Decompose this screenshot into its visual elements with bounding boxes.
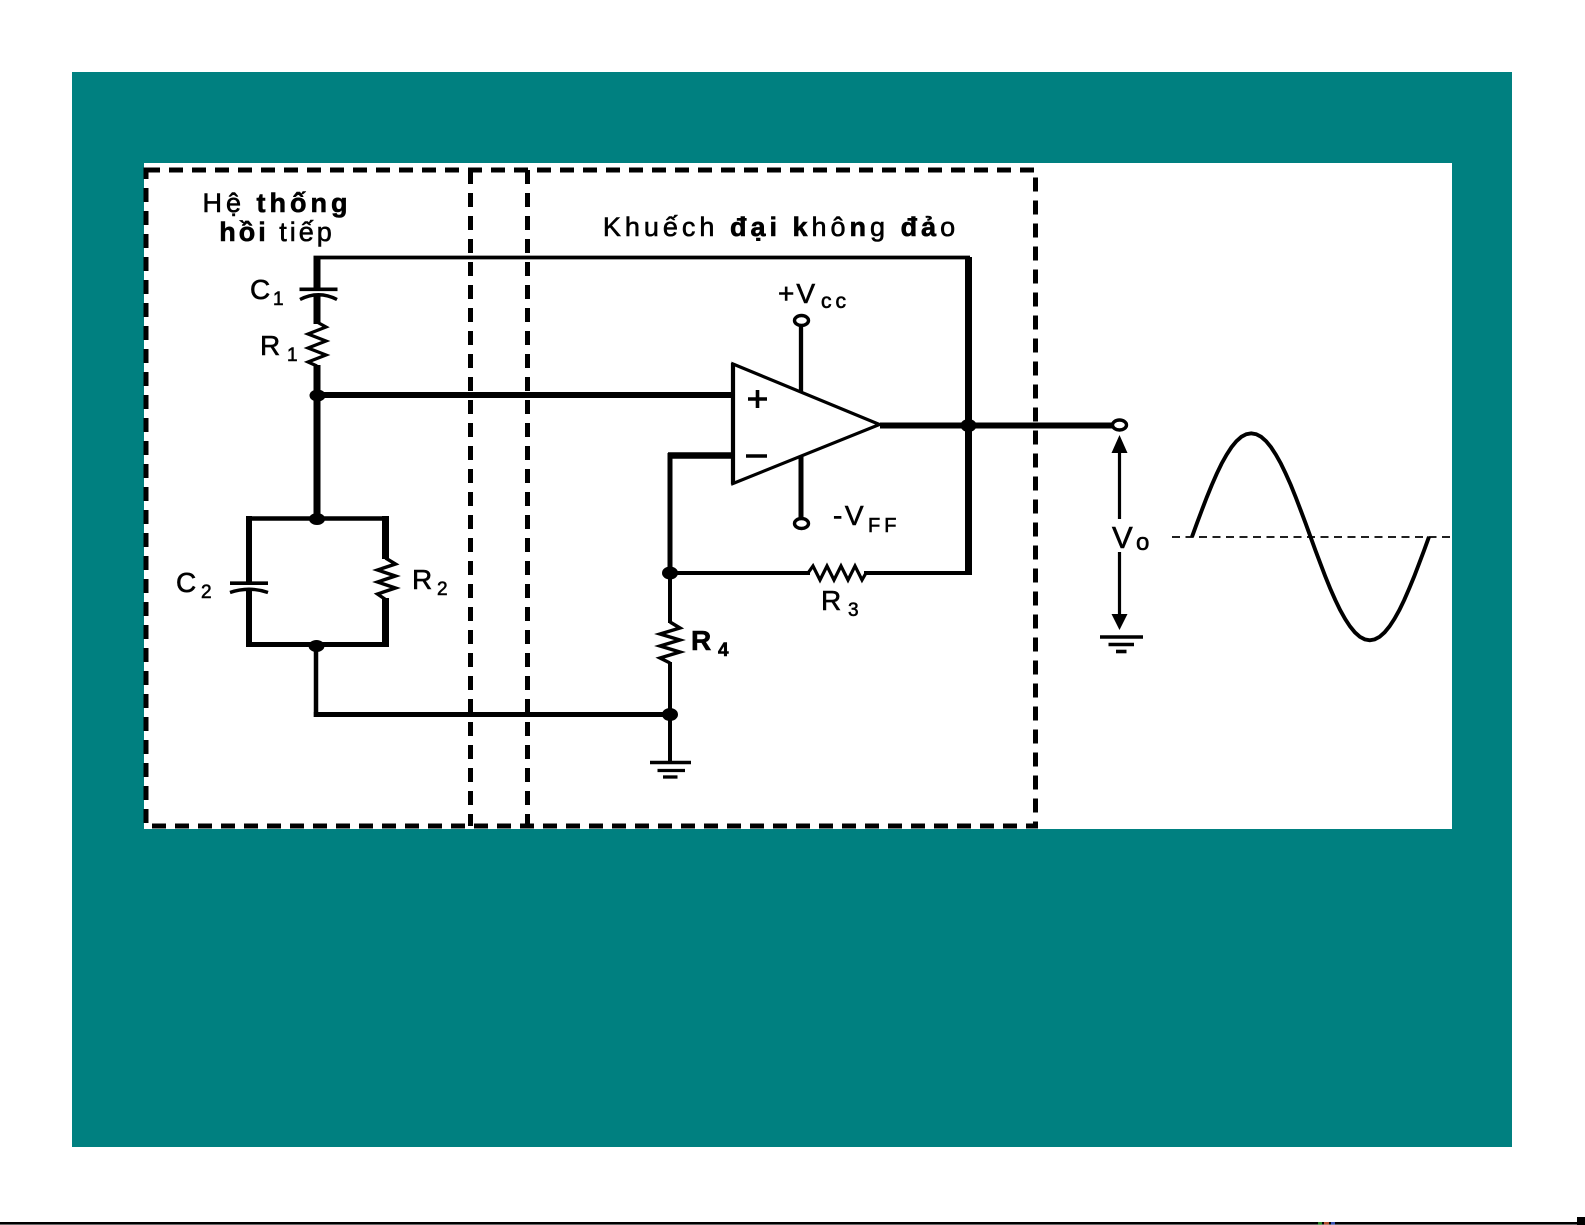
op-amp U1 triangle <box>733 364 880 484</box>
svg-text:Hệ thống: Hệ thống <box>203 188 352 218</box>
wire: R4 upper stem <box>668 573 672 623</box>
svg-text:1: 1 <box>273 289 284 310</box>
wire: inverting input horizontal <box>668 452 733 459</box>
node: ground junction <box>662 708 678 721</box>
wire: R4 lower stem <box>668 662 672 717</box>
dashed outer box border <box>146 170 1036 826</box>
wire: bottom feedback wire <box>314 712 670 717</box>
wire: C1 top stem <box>314 256 321 288</box>
wire: to op-amp + input <box>315 392 733 398</box>
tiny colored artifacts on rule <box>1318 1222 1322 1225</box>
resistor R4 <box>660 622 680 663</box>
svg-text:4: 4 <box>718 640 729 661</box>
svg-text:3: 3 <box>848 600 859 621</box>
node: + input junction <box>310 390 326 402</box>
op-amp - mark <box>746 454 767 458</box>
wire: R2 lower stem <box>382 598 389 647</box>
svg-text:2: 2 <box>437 579 448 600</box>
svg-text:-V: -V <box>833 500 866 531</box>
wire: parallel box top <box>246 516 389 521</box>
sine wave <box>1192 433 1429 640</box>
wire: R3 right segment <box>864 571 972 575</box>
wire: top feedback wire <box>314 256 971 260</box>
node: top of parallel box <box>309 513 325 525</box>
ground symbol (amplifier) <box>650 761 691 765</box>
svg-text:V: V <box>1112 520 1133 555</box>
wire: C1-R1 stem <box>314 295 321 324</box>
capacitor C1 <box>300 287 338 291</box>
wire: center vertical to parallel box <box>314 395 321 520</box>
resistor R1 <box>308 322 326 366</box>
svg-text:C: C <box>250 274 270 305</box>
svg-text:FF: FF <box>868 515 900 537</box>
terminal: -VEE <box>795 519 809 529</box>
svg-text:C: C <box>176 567 196 598</box>
wire: right vertical from top wire down to R3 corner <box>965 257 972 573</box>
svg-text:cc: cc <box>821 290 850 313</box>
arrow Vo: top head <box>1112 435 1128 453</box>
wire: R2 upper stem <box>382 516 389 559</box>
svg-text:hồi tiếp: hồi tiếp <box>219 217 335 247</box>
arrow Vo: bottom head <box>1112 614 1128 630</box>
svg-text:Khuếch đại không đảo: Khuếch đại không đảo <box>603 212 959 242</box>
svg-text:o: o <box>1136 529 1149 556</box>
svg-text:1: 1 <box>287 345 298 366</box>
wire: R1 to node <box>314 365 321 397</box>
node: inverting junction <box>662 567 678 580</box>
dashed sine axis <box>1172 536 1452 538</box>
wire: inverting input vertical <box>668 453 673 574</box>
wire: ground stem <box>668 714 672 762</box>
op-amp + mark <box>748 397 767 401</box>
wire: C2 upper stem <box>246 516 252 582</box>
svg-text:R: R <box>821 585 841 616</box>
resistor R3 <box>808 566 866 580</box>
node: bottom of parallel box <box>309 640 325 652</box>
arrow Vo: shaft upper <box>1118 450 1121 519</box>
wire: C2 lower stem <box>246 588 252 647</box>
terminal: output <box>1113 420 1127 430</box>
wire: parallel box bottom <box>246 642 389 647</box>
arrow Vo: shaft lower <box>1118 552 1121 617</box>
wire: R3 left segment <box>670 571 810 575</box>
ground symbol (output) <box>1100 635 1143 639</box>
teal slide background <box>72 72 1512 1147</box>
svg-text:R: R <box>260 330 280 361</box>
wire: +Vcc stem <box>799 326 803 392</box>
dashed divider line 1 (right edge of feedback box) <box>468 170 473 826</box>
svg-text:2: 2 <box>201 582 212 603</box>
svg-text:+V: +V <box>778 278 817 309</box>
capacitor C2 <box>230 581 268 585</box>
dashed divider line 2 (left edge of amplifier box) <box>525 170 530 826</box>
bottom page rule <box>0 1222 1585 1225</box>
node: output junction <box>961 419 977 432</box>
wire: -VEE stem <box>799 456 804 519</box>
terminal: +Vcc <box>795 316 809 326</box>
wire: output <box>880 423 1115 429</box>
svg-text:R: R <box>412 564 432 595</box>
resistor R2 <box>378 558 396 600</box>
svg-text:R: R <box>691 625 711 656</box>
white circuit panel <box>144 163 1452 829</box>
wire: lower center stem <box>314 646 319 717</box>
